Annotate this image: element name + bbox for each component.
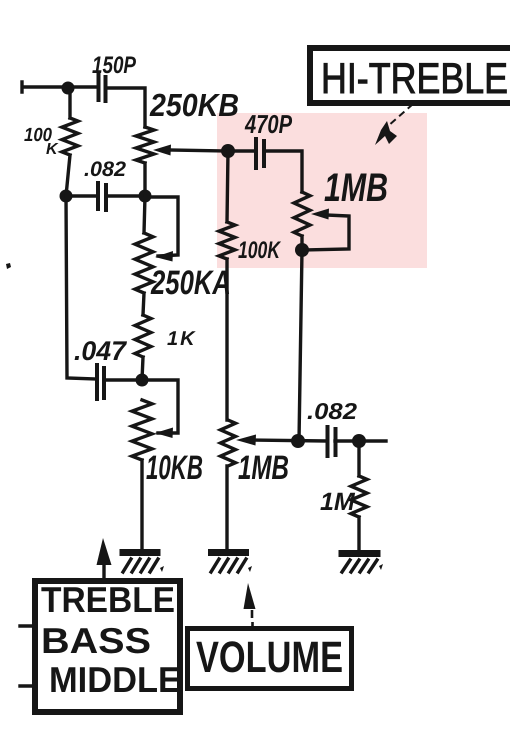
svg-text:1MB: 1MB <box>238 449 289 487</box>
resistor 100K pink <box>219 151 235 420</box>
wire wiper to 470P node <box>168 150 228 151</box>
svg-text:1K: 1K <box>167 328 197 350</box>
svg-text:150P: 150P <box>92 52 137 79</box>
capacitor C 150P <box>99 74 106 101</box>
capacitor C .082 <box>98 183 106 210</box>
resistor 1M <box>351 441 367 552</box>
box VOLUME <box>188 629 352 689</box>
wiper loop 10KB <box>142 380 178 433</box>
node junction .047 <box>136 374 149 387</box>
wire volume row <box>252 440 386 441</box>
resistor 1K <box>135 315 151 380</box>
node junction .082 right <box>139 190 152 203</box>
ground 10KB <box>120 553 165 573</box>
wiper arrow 1MB top <box>311 209 329 220</box>
potentiometer 1MB top <box>294 192 310 250</box>
wire cap to corner <box>106 88 146 127</box>
svg-text:.082: .082 <box>307 398 357 424</box>
svg-text:100K: 100K <box>238 237 281 264</box>
wiper arrow 10KB <box>155 428 173 439</box>
box HI-TREBLE <box>310 48 510 103</box>
ground 1M <box>339 554 384 573</box>
capacitor C .047 <box>97 365 104 399</box>
potentiometer 250KA <box>135 196 153 315</box>
svg-text:250KA: 250KA <box>150 264 231 302</box>
svg-text:250KB: 250KB <box>149 87 239 123</box>
svg-text:470P: 470P <box>244 109 292 139</box>
potentiometer 10KB <box>132 400 152 551</box>
node A junction <box>62 82 75 95</box>
wire 470P to 1MB pot <box>228 151 302 192</box>
potentiometer 250KB <box>136 127 154 196</box>
wire .047 to junction <box>104 378 142 381</box>
svg-text:1M: 1M <box>320 488 356 516</box>
resistor 100K left <box>62 87 78 196</box>
wire left vertical to .047 <box>66 196 96 379</box>
svg-text:HI-TREBLE: HI-TREBLE <box>321 55 508 103</box>
node junction 470P <box>221 144 235 158</box>
svg-text:VOLUME: VOLUME <box>196 633 343 682</box>
node junction .082 left <box>60 190 73 203</box>
wire down to volume row <box>299 250 302 441</box>
capacitor C 470P <box>256 139 264 168</box>
dashed arrow HI-TREBLE <box>388 104 413 126</box>
wiper loop 1MB top <box>302 215 349 250</box>
svg-text:K: K <box>46 141 59 158</box>
wiper arrow 250KB <box>153 145 171 156</box>
svg-text:10KB: 10KB <box>146 449 203 487</box>
node junction volume left <box>291 434 305 448</box>
svg-text:MIDDLE: MIDDLE <box>49 659 181 700</box>
svg-text:BASS: BASS <box>41 620 151 661</box>
tick left lower <box>20 684 33 687</box>
capacitor C .082 bottom <box>328 427 336 456</box>
svg-text:TREBLE: TREBLE <box>41 579 175 620</box>
wire .082 row <box>66 194 145 197</box>
wire input top-left <box>22 82 96 92</box>
box TREBLE BASS MIDDLE <box>35 581 180 712</box>
svg-text:.047: .047 <box>74 336 128 366</box>
speck left margin <box>6 263 11 269</box>
dashed arrow up to VOLUME box <box>251 610 254 626</box>
wiper arrow 1MB bottom <box>236 435 256 446</box>
node junction 1MB top <box>295 243 309 257</box>
tick left upper <box>20 624 33 627</box>
ground 1MB bottom <box>208 553 252 573</box>
wiper loop 250KA <box>145 197 178 256</box>
highlight region <box>217 113 427 268</box>
svg-text:.082: .082 <box>84 158 126 181</box>
svg-text:1MB: 1MB <box>324 166 388 210</box>
node junction volume right <box>352 434 366 448</box>
wiper arrow 250KA <box>155 251 173 262</box>
arrow up to TREBLE box <box>102 562 105 578</box>
potentiometer 1MB bottom <box>221 420 236 551</box>
